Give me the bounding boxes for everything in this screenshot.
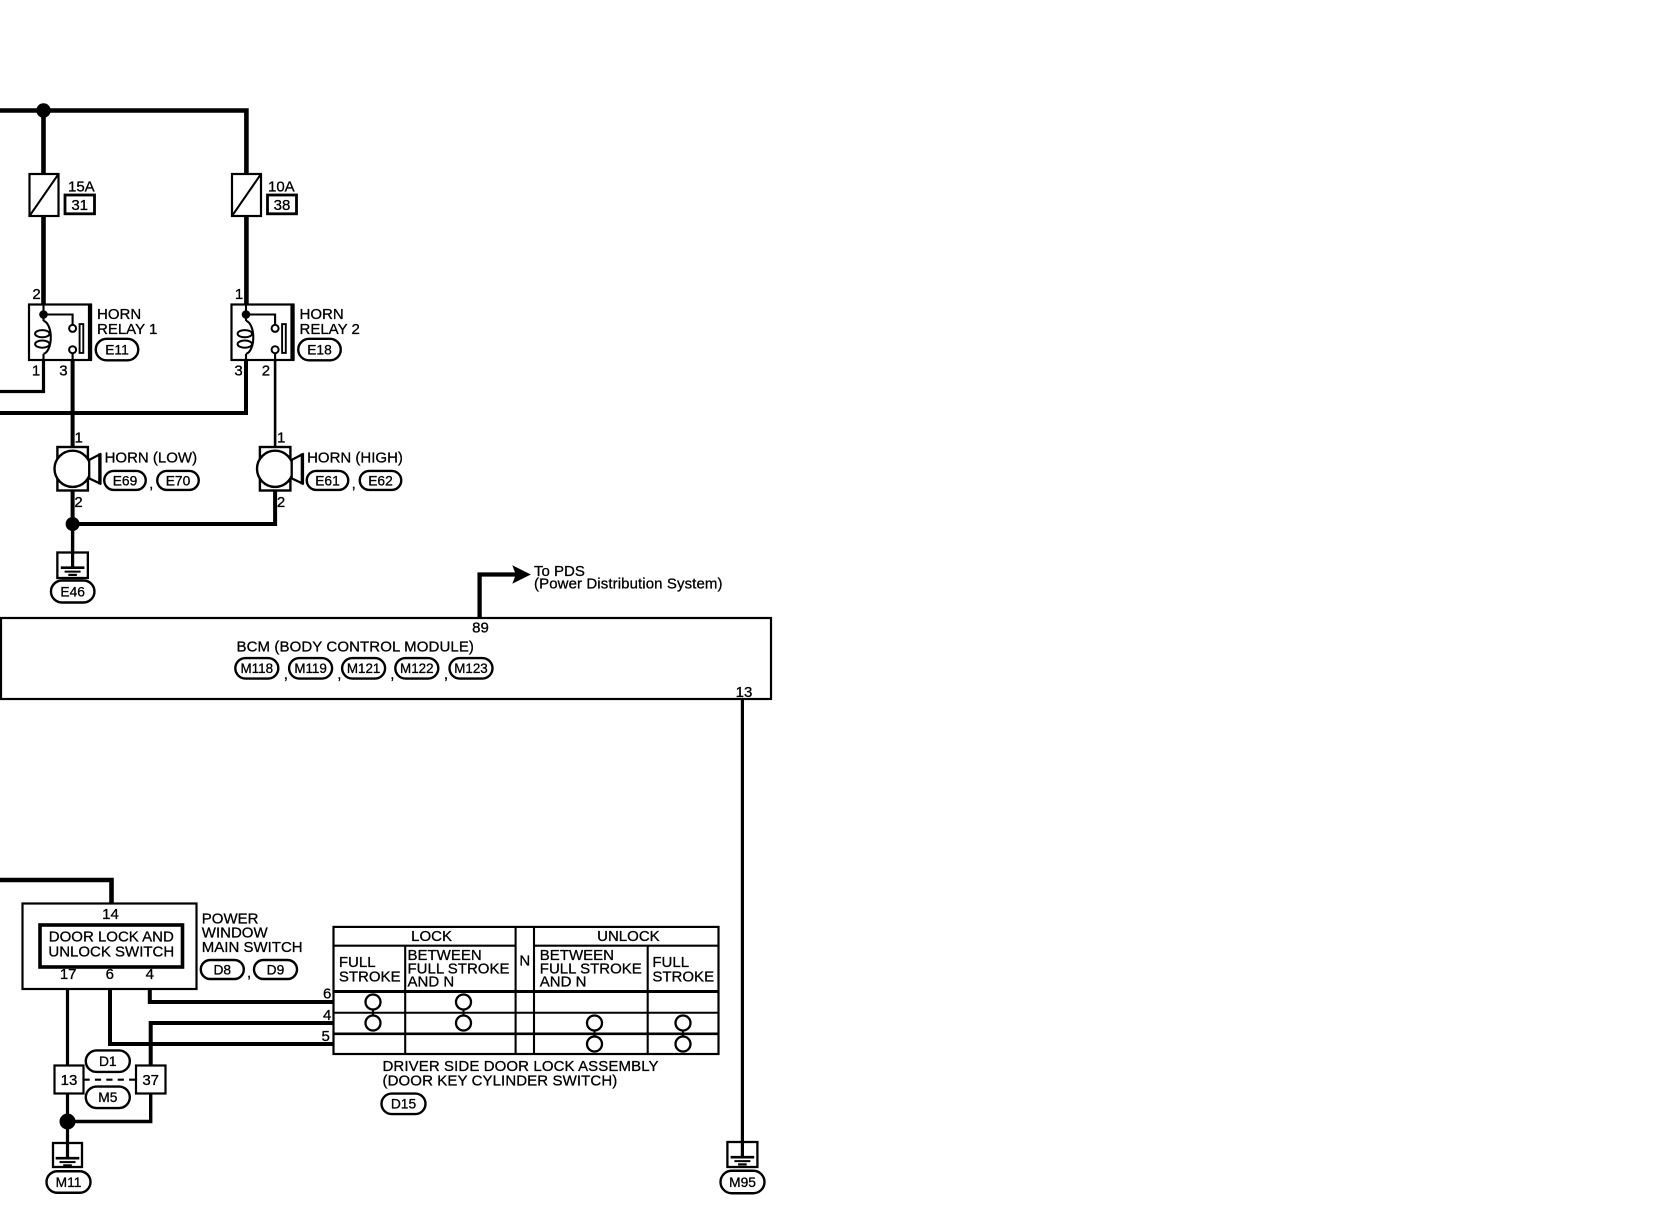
- svg-text:RELAY 1: RELAY 1: [97, 321, 157, 338]
- svg-text:E70: E70: [166, 473, 191, 488]
- svg-text:N: N: [519, 952, 530, 969]
- svg-text:M121: M121: [347, 661, 381, 676]
- svg-text:(Power Distribution System): (Power Distribution System): [534, 575, 723, 592]
- svg-text:M123: M123: [454, 661, 488, 676]
- svg-text:15A: 15A: [68, 179, 95, 196]
- svg-text:,: ,: [284, 666, 288, 683]
- svg-text:,: ,: [352, 476, 356, 493]
- svg-text:E18: E18: [307, 342, 332, 357]
- svg-text:6: 6: [323, 986, 331, 1003]
- svg-text:M118: M118: [241, 661, 274, 676]
- svg-text:1: 1: [235, 286, 243, 303]
- svg-text:13: 13: [736, 684, 753, 701]
- svg-text:STROKE: STROKE: [652, 968, 714, 985]
- svg-text:1: 1: [75, 429, 83, 446]
- svg-text:LOCK: LOCK: [411, 928, 452, 945]
- svg-text:2: 2: [74, 494, 82, 511]
- svg-text:M119: M119: [294, 661, 327, 676]
- svg-text:2: 2: [32, 286, 40, 303]
- svg-text:3: 3: [234, 362, 242, 379]
- svg-text:4: 4: [323, 1007, 331, 1024]
- svg-text:M122: M122: [400, 661, 434, 676]
- svg-text:E69: E69: [113, 473, 138, 488]
- svg-text:STROKE: STROKE: [339, 968, 401, 985]
- svg-text:31: 31: [71, 197, 88, 214]
- svg-text:M95: M95: [729, 1175, 756, 1190]
- svg-text:2: 2: [262, 362, 270, 379]
- svg-text:37: 37: [142, 1072, 159, 1089]
- svg-text:E46: E46: [60, 584, 85, 599]
- svg-text:D1: D1: [99, 1054, 117, 1069]
- svg-text:4: 4: [146, 966, 154, 983]
- svg-text:3: 3: [59, 362, 67, 379]
- svg-text:AND N: AND N: [540, 974, 587, 991]
- svg-text:,: ,: [149, 476, 153, 493]
- svg-text:(DOOR KEY CYLINDER SWITCH): (DOOR KEY CYLINDER SWITCH): [383, 1073, 618, 1090]
- svg-text:1: 1: [32, 362, 40, 379]
- svg-text:D8: D8: [213, 962, 231, 977]
- svg-text:17: 17: [60, 966, 77, 983]
- svg-text:BCM (BODY CONTROL MODULE): BCM (BODY CONTROL MODULE): [237, 639, 475, 656]
- svg-text:MAIN SWITCH: MAIN SWITCH: [202, 939, 303, 956]
- svg-text:,: ,: [337, 666, 341, 683]
- svg-text:HORN (HIGH): HORN (HIGH): [307, 449, 403, 466]
- svg-text:2: 2: [277, 494, 285, 511]
- svg-text:5: 5: [321, 1028, 329, 1045]
- svg-text:E62: E62: [368, 473, 393, 488]
- svg-text:UNLOCK: UNLOCK: [597, 928, 660, 945]
- svg-text:13: 13: [61, 1072, 78, 1089]
- svg-text:E11: E11: [105, 342, 129, 357]
- svg-text:UNLOCK SWITCH: UNLOCK SWITCH: [48, 943, 174, 960]
- svg-text:,: ,: [247, 965, 251, 982]
- svg-text:10A: 10A: [268, 179, 295, 196]
- svg-text:AND N: AND N: [408, 974, 455, 991]
- svg-text:D9: D9: [267, 962, 285, 977]
- svg-text:6: 6: [106, 966, 114, 983]
- svg-text:M5: M5: [98, 1090, 117, 1105]
- svg-text:M11: M11: [56, 1175, 82, 1190]
- svg-text:RELAY 2: RELAY 2: [300, 321, 360, 338]
- svg-text:,: ,: [390, 666, 394, 683]
- svg-text:89: 89: [472, 619, 489, 636]
- svg-text:HORN (LOW): HORN (LOW): [105, 449, 198, 466]
- svg-text:1: 1: [277, 429, 285, 446]
- svg-text:E61: E61: [315, 473, 340, 488]
- svg-text:38: 38: [274, 197, 291, 214]
- svg-text:D15: D15: [391, 1097, 417, 1112]
- svg-text:,: ,: [444, 666, 448, 683]
- svg-text:14: 14: [102, 906, 119, 923]
